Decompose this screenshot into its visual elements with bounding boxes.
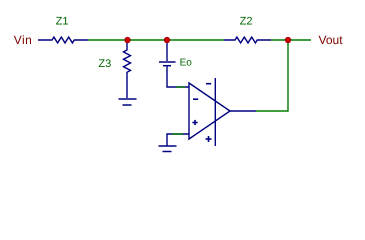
op-amp V+ power label: [206, 136, 212, 142]
node C junction dot: [285, 37, 290, 42]
battery Eo: [159, 43, 189, 87]
wire battery to op-amp inverting input: [176, 86, 185, 88]
wire node B to Z2: [167, 39, 224, 41]
op-amp V- power label: [206, 83, 211, 85]
node B junction dot: [164, 37, 169, 42]
svg-text:Z2: Z2: [240, 15, 253, 27]
node A junction dot: [125, 37, 130, 42]
resistor Z2: [224, 37, 271, 43]
wire node C to Vout: [288, 39, 311, 41]
wire Z1 to node A: [88, 39, 127, 41]
svg-text:Eo: Eo: [180, 57, 193, 68]
ground for op-amp non-inverting input: [159, 134, 190, 152]
svg-text:Vin: Vin: [14, 33, 33, 47]
op-amp power rail line: [214, 78, 216, 146]
wire output feedback to node C: [256, 40, 288, 111]
svg-text:Z3: Z3: [98, 58, 111, 70]
op-amp U1 triangle: [189, 83, 230, 139]
wire node A to node B: [127, 39, 167, 41]
svg-text:Vout: Vout: [319, 33, 344, 47]
op-amp inverting input mark: [193, 98, 198, 100]
svg-text:Z1: Z1: [56, 16, 69, 28]
resistor Z3: [124, 43, 131, 98]
wire Z2 to node C: [271, 39, 288, 41]
op-amp non-inverting input mark: [192, 120, 197, 125]
wire ground to op-amp non-inverting input: [172, 133, 183, 135]
op-amp output lead: [230, 110, 256, 112]
resistor Z1: [38, 37, 88, 43]
ground for Z3: [119, 99, 137, 105]
